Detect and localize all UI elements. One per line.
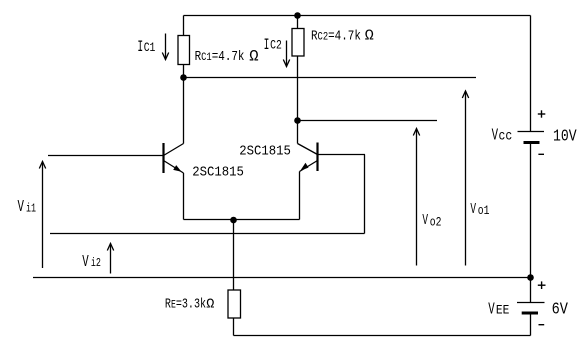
svg-text:i1: i1: [26, 202, 36, 216]
svg-text:i2: i2: [91, 257, 101, 271]
svg-text:V: V: [18, 198, 25, 217]
svg-text:C1: C1: [144, 41, 156, 56]
svg-text:V: V: [470, 201, 476, 218]
svg-text:2SC1815: 2SC1815: [239, 143, 291, 159]
svg-text:RE=3.3k: RE=3.3k: [165, 296, 206, 312]
svg-text:Ω: Ω: [206, 298, 214, 313]
svg-text:V: V: [82, 253, 89, 272]
svg-text:6V: 6V: [552, 299, 569, 319]
svg-text:I: I: [137, 38, 143, 56]
svg-text:o1: o1: [478, 205, 490, 218]
svg-text:Ω: Ω: [365, 28, 374, 45]
svg-text:I: I: [264, 35, 270, 53]
svg-text:V: V: [492, 127, 499, 146]
svg-text:EE: EE: [496, 303, 509, 318]
svg-text:cc: cc: [499, 129, 513, 144]
svg-text:C2: C2: [270, 38, 282, 53]
svg-text:Ω: Ω: [249, 47, 258, 65]
svg-text:2SC1815: 2SC1815: [192, 164, 244, 180]
svg-text:o2: o2: [430, 216, 442, 229]
svg-text:V: V: [488, 300, 495, 319]
svg-text:V: V: [422, 212, 428, 229]
svg-text:10V: 10V: [553, 126, 577, 146]
